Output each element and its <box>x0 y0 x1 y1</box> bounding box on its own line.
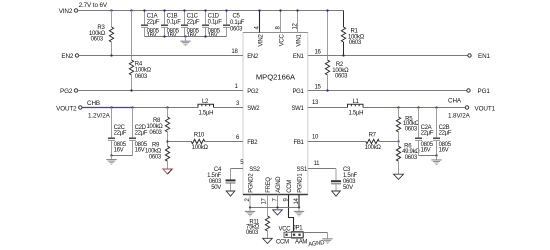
svg-text:VIN1: VIN1 <box>296 34 302 47</box>
node FB2 junction <box>166 140 168 142</box>
svg-text:VOUT2: VOUT2 <box>56 105 77 112</box>
resistor R6 <box>396 142 420 175</box>
svg-text:0.1µF: 0.1µF <box>167 19 182 25</box>
svg-text:CCM: CCM <box>287 180 293 193</box>
wire FB2 right segment <box>205 141 243 143</box>
node rail/C1A <box>143 9 145 11</box>
terminal EN2 <box>61 53 78 60</box>
svg-text:VOUT1: VOUT1 <box>475 105 496 112</box>
ground PGND1 <box>294 208 304 217</box>
svg-text:22µF: 22µF <box>439 131 452 137</box>
node bottom rail C1D <box>204 35 206 37</box>
svg-text:22µF: 22µF <box>114 131 127 137</box>
ground R9 red triangle <box>163 169 172 174</box>
terminal VIN2 <box>59 8 78 15</box>
svg-text:CCM: CCM <box>276 240 289 246</box>
svg-text:PGND2: PGND2 <box>249 173 255 193</box>
pin AGND stub <box>277 195 279 208</box>
resistor R9 <box>145 142 170 170</box>
pin VIN2 stub <box>259 11 261 33</box>
svg-text:FREQ: FREQ <box>266 177 272 193</box>
node rail/R3 <box>110 9 112 11</box>
svg-text:0.1µF: 0.1µF <box>208 19 223 25</box>
terminal VOUT2 <box>56 105 82 112</box>
wire PG2 <box>78 90 243 92</box>
wire SW2 <box>133 107 199 109</box>
svg-text:R10: R10 <box>194 133 205 139</box>
capacitor C3 <box>331 167 357 191</box>
svg-text:MPQ2166A: MPQ2166A <box>256 73 296 82</box>
svg-text:0603: 0603 <box>335 73 348 79</box>
capacitor C2B <box>433 108 452 156</box>
node rail/C1B <box>163 9 165 11</box>
svg-text:EN1: EN1 <box>293 54 305 60</box>
wire EN2 <box>79 55 243 57</box>
node FB1 junction <box>397 140 399 142</box>
svg-text:13: 13 <box>312 100 319 106</box>
inductor L1 <box>348 99 364 117</box>
svg-text:0603: 0603 <box>230 27 243 33</box>
node VOUT2/R8 <box>166 106 168 108</box>
svg-text:0603: 0603 <box>135 74 148 80</box>
svg-text:AAM: AAM <box>295 240 307 246</box>
wire FB1 left segment <box>308 141 366 143</box>
node bottom rail C2B <box>435 154 437 156</box>
wire FB2 left segment <box>168 141 192 143</box>
svg-text:16V: 16V <box>439 147 449 153</box>
capacitor C1C <box>181 11 200 40</box>
wire C2C/C2D bottom rail <box>112 155 133 157</box>
svg-text:12: 12 <box>293 22 299 29</box>
svg-text:FB1: FB1 <box>293 140 304 146</box>
ground AGND jumper <box>322 238 332 243</box>
svg-text:AGND: AGND <box>276 176 282 193</box>
wire VOUT2 blue <box>82 107 133 109</box>
svg-text:R7: R7 <box>369 133 377 139</box>
wire cap bank bottom rail <box>145 36 227 38</box>
pin PGND2 stub <box>249 195 251 208</box>
node bus/AGND <box>276 206 278 208</box>
node bottom rail C1B <box>163 35 165 37</box>
svg-text:22µF: 22µF <box>147 19 160 25</box>
svg-text:16: 16 <box>315 50 322 56</box>
svg-text:22µF: 22µF <box>187 19 200 25</box>
svg-text:CHA: CHA <box>448 98 462 105</box>
svg-text:VIN2: VIN2 <box>258 34 264 47</box>
resistor R7 <box>365 133 382 151</box>
node rail/VCC <box>279 9 281 11</box>
node PG2/R4 <box>130 89 132 91</box>
svg-text:1.5µH: 1.5µH <box>199 111 214 117</box>
svg-text:100kΩ: 100kΩ <box>192 145 209 151</box>
inductor L2 <box>198 99 214 117</box>
capacitor C1D <box>202 11 222 40</box>
node SW1/C2B <box>435 106 437 108</box>
svg-text:14: 14 <box>294 197 300 204</box>
node bus/PGND1 <box>298 206 300 208</box>
svg-text:17: 17 <box>262 197 268 204</box>
svg-text:PG1: PG1 <box>478 88 491 95</box>
svg-text:0603: 0603 <box>91 37 104 43</box>
node rail/R4 <box>130 9 132 11</box>
wire PG1 <box>308 90 467 92</box>
ground C2B <box>431 156 441 165</box>
svg-text:0.1µF: 0.1µF <box>230 20 245 26</box>
svg-text:PG1: PG1 <box>292 89 304 95</box>
pin VIN1 stub <box>297 11 299 33</box>
svg-text:SW1: SW1 <box>291 106 304 112</box>
node PG1/R2 <box>326 89 328 91</box>
svg-text:VIN2: VIN2 <box>59 8 73 15</box>
IC U1 MPQ2166A body <box>243 33 308 195</box>
node bottom rail ground <box>184 35 186 37</box>
pin FREQ stub <box>267 195 269 217</box>
capacitor C1A <box>141 11 160 40</box>
capacitor C2C <box>108 108 127 156</box>
svg-text:18: 18 <box>231 49 238 55</box>
svg-text:0603: 0603 <box>149 154 162 160</box>
svg-text:0603: 0603 <box>405 155 418 161</box>
resistor R3 <box>89 11 114 56</box>
terminal PG1 <box>467 88 491 95</box>
ground C2C <box>106 156 116 165</box>
svg-text:L2: L2 <box>202 99 209 105</box>
wire jumper to AGND <box>304 232 328 234</box>
wire SW1 <box>308 107 348 109</box>
wire L2 to SW2 pin <box>214 107 244 109</box>
wire FB1 right segment <box>379 141 398 143</box>
svg-text:PGND1: PGND1 <box>298 173 304 193</box>
wire SS2 <box>231 168 244 170</box>
resistor R11 <box>246 216 270 238</box>
node rail/VIN2 <box>258 9 260 11</box>
svg-text:0603: 0603 <box>349 40 362 46</box>
wire SS1 <box>308 168 336 170</box>
svg-text:16V: 16V <box>135 147 145 153</box>
wire L1 to VOUT1 <box>363 107 465 109</box>
wire VIN2 rail <box>78 10 344 12</box>
svg-text:JP1: JP1 <box>293 225 303 231</box>
svg-text:PG2: PG2 <box>247 89 259 95</box>
resistor R2 <box>325 11 349 91</box>
node VOUT2/C2C <box>110 106 112 108</box>
svg-text:50V: 50V <box>211 185 221 191</box>
svg-text:EN2: EN2 <box>247 54 259 60</box>
svg-text:CHB: CHB <box>87 100 100 107</box>
svg-text:100kΩ: 100kΩ <box>365 145 382 151</box>
node rail/C1C <box>183 9 185 11</box>
resistor R10 <box>191 133 208 151</box>
node rail/VIN1 <box>296 9 298 11</box>
svg-text:1.8V/2A: 1.8V/2A <box>448 113 471 120</box>
capacitor C4 <box>207 167 235 191</box>
pin VCC stub <box>280 11 282 33</box>
svg-text:VCC: VCC <box>279 226 292 232</box>
pin CCM wire to jumper <box>289 195 294 233</box>
ground C3 triangle <box>332 191 341 196</box>
svg-text:SS1: SS1 <box>297 167 308 173</box>
jumper JP1 header <box>284 231 304 238</box>
svg-text:SS2: SS2 <box>249 167 260 173</box>
svg-text:FB2: FB2 <box>247 140 258 146</box>
ground PGND2 <box>245 208 255 217</box>
svg-text:1.5µH: 1.5µH <box>349 111 364 117</box>
svg-text:0603: 0603 <box>149 130 162 136</box>
resistor R1 <box>341 11 364 56</box>
node VOUT2/C2D <box>131 106 133 108</box>
svg-text:SW2: SW2 <box>247 106 260 112</box>
svg-text:22µF: 22µF <box>421 131 434 137</box>
capacitor C2D <box>129 108 148 156</box>
capacitor C1B <box>161 11 181 40</box>
svg-text:2.7V to 6V: 2.7V to 6V <box>79 2 108 9</box>
node rail/R2 <box>326 9 328 11</box>
svg-text:0603: 0603 <box>405 126 418 132</box>
node bottom rail C2C <box>110 154 112 156</box>
node SW1/C2A <box>417 106 419 108</box>
pin PGND1 stub <box>298 195 300 208</box>
node EN1/R1 <box>342 54 344 56</box>
svg-text:10: 10 <box>312 135 319 141</box>
svg-text:16V: 16V <box>114 147 124 153</box>
wire C2A/C2B bottom rail <box>419 155 437 157</box>
resistor R8 <box>147 108 170 142</box>
wire VCC stub <box>286 231 288 233</box>
svg-text:22µF: 22µF <box>135 131 148 137</box>
svg-text:PG2: PG2 <box>60 88 73 95</box>
node bus/PGND2 <box>249 206 251 208</box>
terminal EN1 <box>468 53 491 60</box>
ground C4 triangle <box>226 191 235 196</box>
node rail/C1D <box>204 9 206 11</box>
ground R6 triangle <box>394 174 404 179</box>
svg-text:EN1: EN1 <box>478 53 491 60</box>
ground R11 triangle <box>263 238 273 243</box>
svg-text:100kΩ: 100kΩ <box>135 68 152 74</box>
svg-text:15: 15 <box>315 85 322 91</box>
resistor R5 <box>396 108 419 142</box>
svg-text:EN2: EN2 <box>61 53 74 60</box>
svg-text:C5: C5 <box>233 14 241 20</box>
svg-text:50V: 50V <box>343 185 353 191</box>
svg-text:VCC: VCC <box>279 34 285 47</box>
terminal PG2 <box>60 88 78 95</box>
capacitor C2A <box>415 108 434 156</box>
svg-text:L1: L1 <box>353 99 360 105</box>
capacitor C5 <box>223 11 245 37</box>
wire ground bus <box>250 207 299 209</box>
terminal VOUT1 <box>465 105 495 112</box>
ground cap bank <box>180 37 190 47</box>
node SW1/R5 <box>397 106 399 108</box>
svg-text:1.2V/2A: 1.2V/2A <box>88 112 111 119</box>
wire EN1 <box>308 55 468 57</box>
svg-text:16V: 16V <box>421 147 431 153</box>
node EN2/R3 <box>110 54 112 56</box>
node rail/C5 <box>225 9 227 11</box>
svg-text:0603: 0603 <box>246 230 259 236</box>
svg-text:11: 11 <box>314 161 321 167</box>
resistor R4 <box>129 11 151 91</box>
ground AGND triangle <box>273 210 283 215</box>
